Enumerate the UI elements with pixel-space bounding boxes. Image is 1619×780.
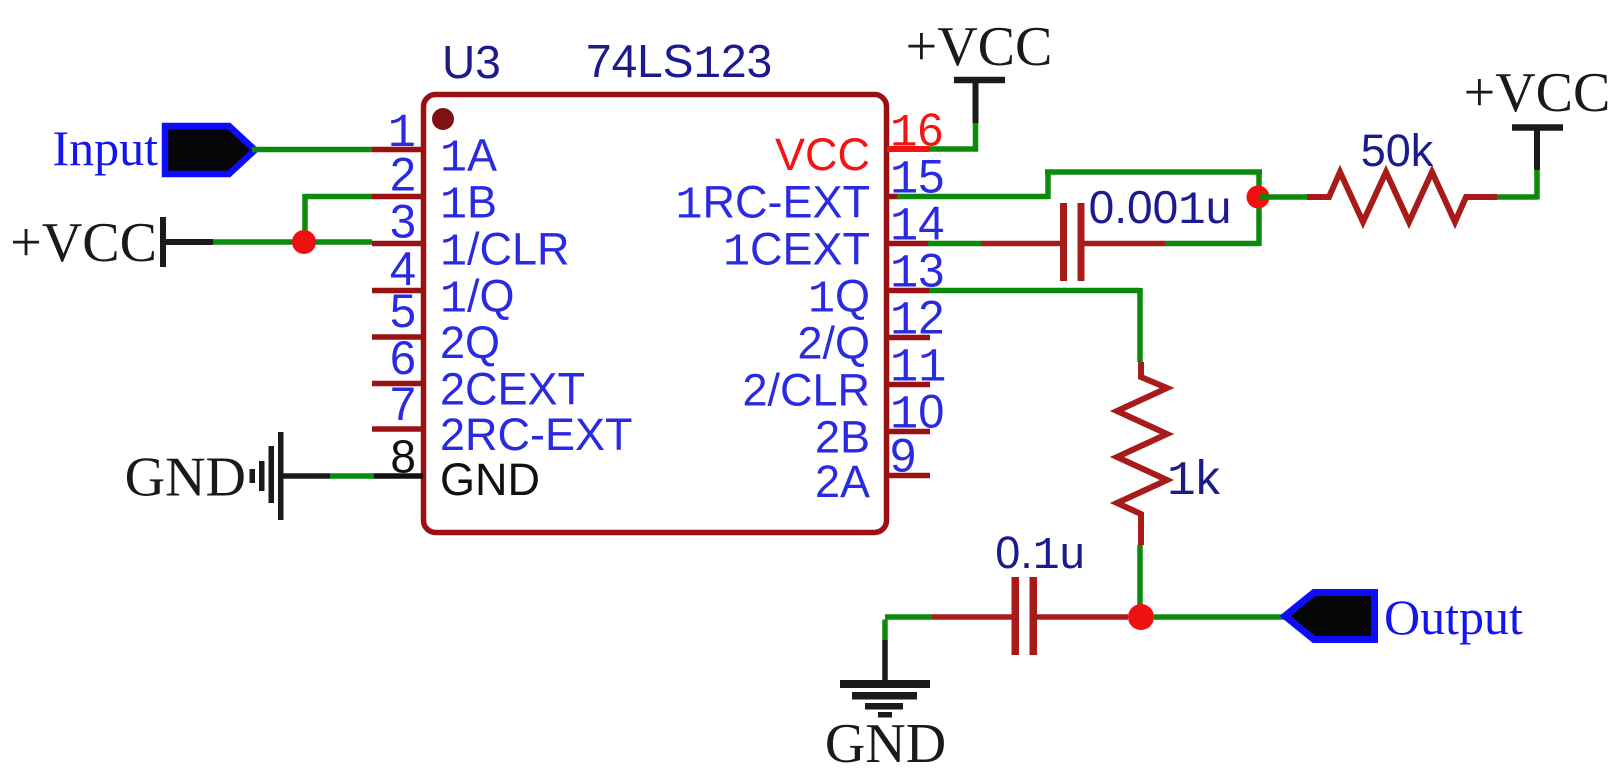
junction node pin2/pin3/VCC (292, 230, 316, 254)
svg-text:GND: GND (825, 713, 946, 775)
wire loop right vertical (1256, 172, 1262, 246)
capacitor 0.1u plates (1012, 577, 1038, 655)
port Output (1285, 593, 1375, 640)
svg-text:GND: GND (125, 447, 246, 509)
wire junction to 50k (1259, 194, 1307, 200)
wire VCC top to pin 16 (929, 146, 978, 152)
svg-text:1k: 1k (1167, 452, 1221, 509)
svg-text:50k: 50k (1361, 125, 1434, 176)
svg-text:5: 5 (390, 284, 416, 337)
svg-text:0.001u: 0.001u (1089, 181, 1232, 237)
pin 16 stub (VCC, red) (887, 146, 929, 152)
wire pin 15 to loop (897, 194, 1048, 200)
pin 9 stub (887, 473, 930, 479)
resistor 50k (1307, 172, 1497, 222)
svg-text:+VCC: +VCC (906, 16, 1053, 78)
wire gnd drop horizontal (green) (885, 614, 932, 620)
IC pin-1 orientation dot (432, 108, 454, 130)
pin 10 stub (887, 429, 930, 435)
wire GND to pin 8 (black lead) (283, 473, 330, 479)
pin 4 stub (372, 288, 423, 294)
svg-text:0.1u: 0.1u (995, 527, 1085, 582)
wire gnd drop vertical (green) (882, 620, 888, 641)
power +VCC right symbol (1512, 128, 1563, 171)
wire junction to Output port (1154, 614, 1286, 620)
wire loop top (1045, 169, 1262, 175)
pin 6 stub (372, 381, 423, 387)
pin 2 stub (372, 194, 423, 200)
capacitor 0.001u left lead (981, 241, 1061, 247)
svg-text:2/CLR: 2/CLR (742, 365, 870, 416)
svg-text:74LS123: 74LS123 (586, 35, 772, 91)
wire pin 13 vertical down (1137, 288, 1143, 362)
wire pin 13 horizontal (929, 288, 1140, 294)
capacitor 0.001u plates (1060, 203, 1085, 281)
wire 50k to +VCC right (1497, 170, 1537, 200)
svg-text:3: 3 (390, 195, 416, 248)
svg-text:8: 8 (390, 431, 416, 483)
pin 12 stub (887, 335, 930, 341)
wire +VCC to pin 3 (213, 239, 372, 245)
svg-text:VCC: VCC (775, 129, 870, 180)
pin 5 stub (372, 334, 423, 340)
pin 7 stub (372, 426, 423, 432)
svg-text:2: 2 (390, 148, 416, 201)
svg-text:GND: GND (440, 454, 540, 505)
pin 11 stub (887, 382, 930, 388)
power +VCC left symbol bar (163, 217, 213, 267)
power +VCC top symbol (954, 80, 1005, 123)
pin 15 stub (887, 194, 899, 200)
pin 1 stub (372, 147, 423, 153)
wire loop left jog up (1045, 172, 1051, 199)
svg-text:7: 7 (390, 377, 416, 430)
junction node output (1128, 604, 1154, 630)
wire pin 14 green (left of cap) (928, 241, 981, 247)
pin 14 stub (887, 241, 929, 247)
svg-text:Input: Input (52, 120, 158, 176)
wire 1k to junction (1137, 545, 1143, 617)
resistor 1k (1117, 362, 1167, 545)
svg-text:2RC-EXT: 2RC-EXT (440, 409, 633, 460)
wire VCC top vertical (green) (973, 123, 979, 152)
ground GND left symbol (rotated earth) (250, 432, 284, 520)
port Input (165, 126, 255, 174)
wire Input to pin 1 (252, 147, 372, 153)
svg-text:+VCC: +VCC (1464, 62, 1611, 124)
capacitor 0.1u left lead (932, 614, 1012, 620)
capacitor 0.1u right lead (1037, 614, 1128, 620)
svg-text:2A: 2A (815, 456, 870, 507)
pin 13 stub (887, 288, 930, 294)
capacitor 0.001u right lead (1084, 241, 1165, 247)
wire GND to pin 8 (green) (330, 473, 374, 479)
pin 8 stub (372, 473, 423, 479)
svg-text:2CEXT: 2CEXT (440, 364, 585, 415)
wire cap to loop right (1165, 241, 1259, 247)
svg-text:Output: Output (1384, 589, 1523, 645)
wire gnd drop vertical (black) (882, 640, 888, 682)
pin 3 stub (372, 241, 423, 247)
ground GND bottom symbol (840, 680, 930, 718)
svg-text:12: 12 (890, 291, 944, 349)
svg-text:U3: U3 (442, 36, 501, 88)
svg-text:2Q: 2Q (440, 317, 500, 368)
wire pin 2 to junction (horizontal) (305, 194, 372, 200)
svg-text:+VCC: +VCC (10, 212, 157, 274)
wire pin 2 to junction (vertical) (302, 194, 308, 242)
junction node RC (1247, 186, 1270, 209)
svg-text:9: 9 (890, 429, 916, 482)
svg-text:2B: 2B (815, 412, 870, 463)
IC U3 74LS123 body (424, 95, 887, 533)
svg-text:2/Q: 2/Q (797, 318, 870, 369)
